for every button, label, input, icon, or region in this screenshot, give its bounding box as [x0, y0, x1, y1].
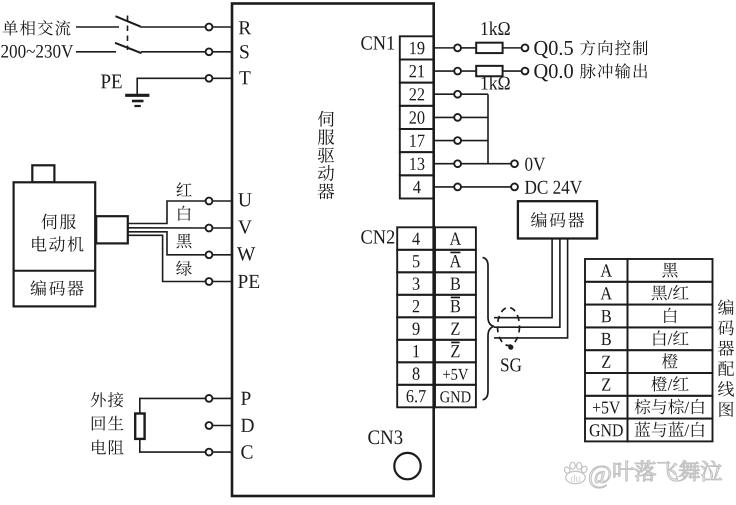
wire R left — [76, 26, 119, 28]
wire pin21 — [434, 70, 454, 72]
label Q0.5 方向控制 — [534, 40, 647, 58]
label 绿 — [176, 261, 192, 276]
switch blade R — [116, 16, 141, 26]
label Q0.0 脉冲输出 — [534, 63, 647, 81]
switch blade S — [115, 43, 142, 53]
terminal Q0.0 — [522, 68, 529, 75]
resistor R-regen — [135, 414, 144, 439]
wire pin13 to 0V — [461, 163, 511, 165]
encoder wiring table text — [590, 263, 705, 438]
servo motor box M1 — [14, 182, 96, 306]
label 伺服 — [41, 214, 76, 230]
wire C — [140, 451, 206, 453]
terminal 0V — [511, 160, 518, 167]
wire pin17 — [434, 140, 454, 142]
label 0V — [525, 158, 545, 171]
label V — [238, 221, 252, 234]
label 伺服驱动器 — [318, 111, 335, 199]
label 1kΩ (R1) — [482, 22, 510, 36]
wire V (white) — [128, 227, 206, 229]
bus common vertical — [487, 94, 489, 164]
motor encoder divider — [14, 270, 96, 272]
terminal V — [206, 225, 232, 232]
CN1 pin table — [400, 36, 434, 198]
wire pin20 — [434, 116, 454, 118]
label 白 — [178, 206, 190, 221]
label W — [237, 247, 255, 260]
terminal R — [206, 24, 232, 31]
label 回生 — [92, 416, 124, 431]
label DC 24V — [525, 181, 582, 194]
label T — [239, 71, 250, 84]
wire pin22 — [434, 93, 454, 95]
wire R right — [140, 26, 206, 28]
wire pin21 to R2 — [461, 70, 476, 72]
terminal pin19 — [454, 44, 461, 51]
wire S left — [76, 51, 116, 53]
label 编码器 (encoder) — [531, 212, 584, 228]
CN2 pin names — [407, 233, 471, 403]
wire PE (green) — [128, 235, 206, 281]
terminal pin21 — [454, 68, 461, 75]
resistor R2 — [476, 66, 502, 76]
wire P — [140, 397, 206, 399]
label 外接 — [91, 392, 124, 407]
terminal DC24V — [511, 184, 518, 191]
label 红 — [177, 182, 192, 196]
wire encoder 2 — [494, 240, 560, 328]
switch link dashes — [127, 16, 129, 51]
cable shield ellipse — [498, 308, 520, 346]
wire PE drop — [136, 78, 138, 95]
encoder wiring table — [585, 259, 713, 441]
watermark text @叶落飞舞泣 — [589, 460, 721, 488]
wire encoder 1 — [494, 240, 552, 318]
wire R1 out — [503, 47, 522, 49]
label 电动机 — [32, 236, 83, 252]
wire R2 out — [503, 70, 522, 72]
node SG dot — [508, 345, 513, 350]
label S — [240, 45, 248, 58]
wire C rise — [139, 439, 141, 453]
encoder box — [518, 201, 597, 238]
wire pin4 to DC24V — [461, 186, 511, 188]
terminal C — [206, 449, 232, 456]
terminal pin17 — [454, 137, 461, 144]
label 1kΩ (R2) — [482, 76, 510, 90]
wire S right — [141, 51, 206, 53]
wire U (red) — [128, 201, 206, 224]
terminal PE — [206, 278, 232, 285]
label 黑 — [176, 234, 191, 249]
ground — [125, 95, 149, 106]
label SG — [501, 358, 521, 371]
label R — [239, 21, 251, 34]
watermark du text — [571, 475, 580, 482]
servo driver box — [232, 4, 434, 497]
label 电阻 — [92, 440, 124, 455]
wire pin4 — [434, 186, 454, 188]
CN2 pin table — [397, 227, 476, 407]
terminal P — [206, 395, 232, 402]
label CN3 — [368, 430, 402, 444]
terminal D — [206, 422, 232, 429]
terminal pin4 — [454, 184, 461, 191]
terminal U — [206, 198, 232, 205]
label D — [241, 419, 254, 432]
wire pin13 — [434, 163, 454, 165]
wire P drop — [139, 398, 141, 414]
label PE (motor) — [238, 275, 259, 288]
CN1 pin numbers — [410, 42, 425, 193]
label PE (input) — [101, 75, 122, 89]
wire T — [137, 77, 205, 79]
label 编码器配线图 — [718, 299, 734, 417]
watermark paw icon — [563, 462, 588, 484]
terminal W — [206, 251, 232, 258]
wire pin19 to R1 — [461, 47, 476, 49]
label 编码器 (motor) — [31, 280, 84, 296]
terminal S — [206, 48, 232, 55]
label P — [241, 392, 250, 405]
wire pin17 to bus — [461, 140, 488, 142]
label 单相交流 — [3, 20, 71, 35]
label C — [241, 445, 252, 458]
CN3 round connector — [394, 453, 420, 479]
label 200~230V — [1, 45, 73, 58]
wire pin20 to bus — [461, 116, 488, 118]
terminal pin20 — [454, 114, 461, 121]
label U — [238, 193, 251, 206]
motor connector — [96, 216, 128, 243]
terminal pin13 — [454, 160, 461, 167]
wire W (black) — [128, 232, 206, 255]
label CN2 — [361, 230, 394, 243]
wire pin22 to bus — [461, 93, 488, 95]
label CN1 — [361, 36, 394, 49]
terminal Q0.5 — [522, 44, 529, 51]
motor shaft — [32, 165, 54, 182]
resistor R1 — [476, 43, 502, 53]
terminal T — [206, 75, 232, 82]
brace (CN2 bundle) — [483, 258, 494, 400]
terminal pin22 — [454, 91, 461, 98]
wire encoder 3 — [494, 240, 568, 338]
wire pin19 — [434, 47, 454, 49]
